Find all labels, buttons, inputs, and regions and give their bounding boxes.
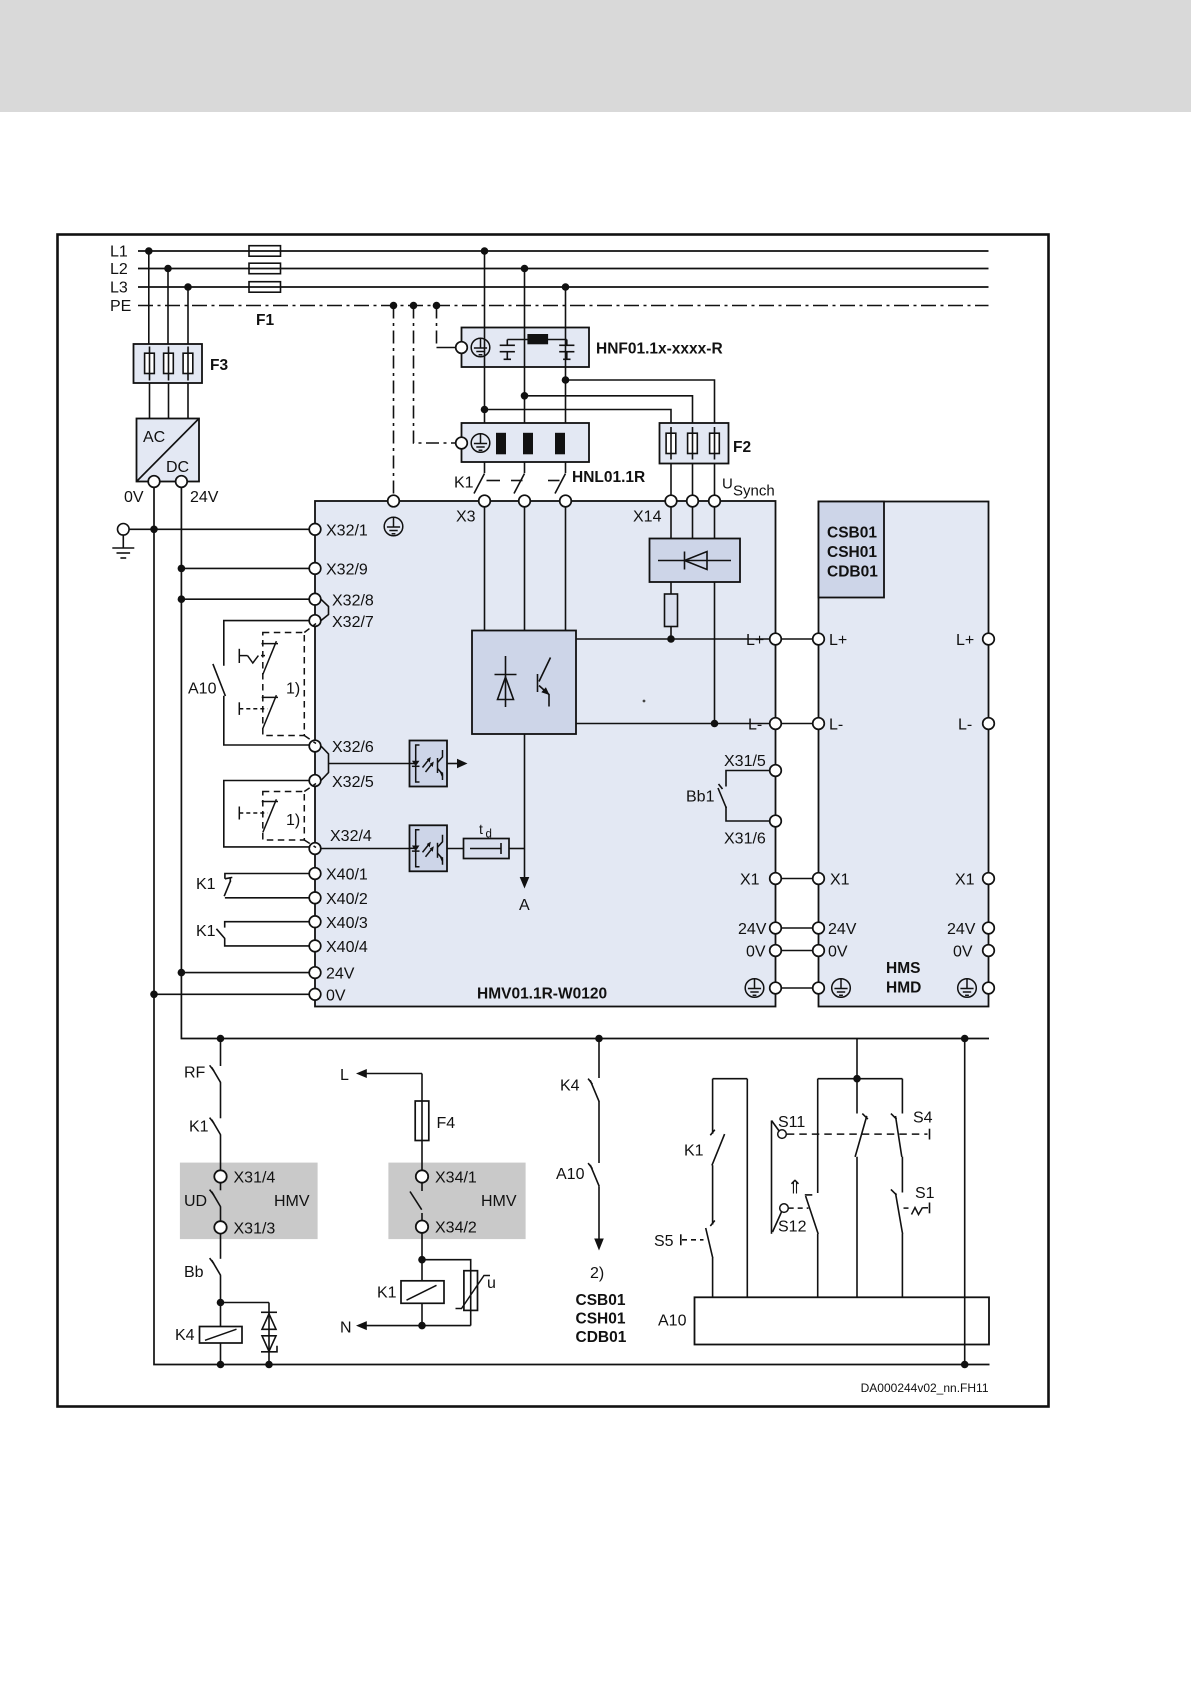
junction suppressor branch bbox=[217, 1299, 225, 1307]
ground earth symbol left bbox=[112, 524, 134, 559]
fuse F1 pole L2 bbox=[249, 263, 281, 274]
terminal X1 on HMS right bbox=[983, 873, 995, 885]
wire K1 coil to N bbox=[421, 1303, 423, 1325]
svg-text:L-: L- bbox=[958, 717, 972, 734]
svg-text:L: L bbox=[340, 1067, 349, 1084]
wire X3/1 into rectifier bbox=[484, 507, 486, 631]
contactor K1 pole3 above X3 bbox=[548, 462, 566, 494]
relay coil K4 bbox=[200, 1327, 243, 1344]
dashed link S1 with spring return bbox=[904, 1207, 913, 1209]
wire leg K1 upper bbox=[712, 1079, 714, 1134]
wire optocoupler2 to delay bbox=[447, 848, 464, 850]
svg-text:S11: S11 bbox=[778, 1114, 805, 1131]
svg-text:2): 2) bbox=[590, 1265, 604, 1282]
drive module HMS/HMD body bbox=[819, 502, 989, 1007]
svg-text:X40/2: X40/2 bbox=[326, 891, 368, 908]
switch A10 blade bbox=[213, 664, 226, 696]
resistor below synch box bbox=[665, 594, 678, 627]
svg-text:CDB01: CDB01 bbox=[576, 1329, 627, 1346]
terminal X31/3 bbox=[214, 1221, 226, 1233]
fuse F3 pole 2 bbox=[164, 347, 174, 381]
terminal PE on HMS right bbox=[983, 982, 995, 994]
terminal X31/6 bbox=[770, 815, 782, 827]
svg-text:0V: 0V bbox=[326, 988, 346, 1005]
terminal X34/1 bbox=[416, 1170, 428, 1182]
svg-text:L-: L- bbox=[829, 717, 843, 734]
fuse F3 pole 1 bbox=[145, 347, 155, 381]
svg-text:X3: X3 bbox=[456, 509, 476, 526]
guided contact 2 bbox=[239, 799, 278, 832]
contact S1 bbox=[891, 1189, 903, 1234]
terminal 0V on HMS right bbox=[983, 945, 995, 957]
wire L3 to HNF bbox=[565, 287, 567, 328]
svg-text:L2: L2 bbox=[110, 261, 128, 278]
capacitor in HNF left bbox=[500, 340, 515, 360]
svg-text:0V: 0V bbox=[953, 944, 973, 961]
wire delay to A line bbox=[509, 848, 525, 850]
contact RF bbox=[210, 1065, 221, 1082]
terminal X31/5 bbox=[770, 765, 782, 777]
junction L3/HNF bbox=[562, 283, 570, 291]
svg-text:S5: S5 bbox=[654, 1233, 674, 1250]
inductor bar 1 in HNL bbox=[496, 433, 506, 455]
wire N arrow bbox=[356, 1321, 367, 1330]
wire phase1 HNF to HNL bbox=[484, 367, 486, 423]
terminal PE on HMV top bbox=[388, 495, 400, 507]
terminal X32/6 bbox=[309, 740, 321, 752]
wire RF chain upper bbox=[220, 1039, 222, 1067]
contact in X34 field bbox=[421, 1183, 423, 1191]
terminal 0V on HMS left bbox=[813, 945, 825, 957]
svg-text:CSB01: CSB01 bbox=[576, 1292, 626, 1309]
wire L+ bus bbox=[576, 638, 770, 640]
switch S5 bbox=[681, 1221, 715, 1259]
svg-text:DC: DC bbox=[166, 459, 189, 476]
wire F2 to X14/2 bbox=[692, 464, 694, 496]
contact UD bbox=[220, 1183, 222, 1191]
svg-text:0V: 0V bbox=[746, 944, 766, 961]
wire leg S11-contact lower bbox=[856, 1157, 858, 1298]
terminal 24V on HMS right bbox=[983, 922, 995, 934]
svg-text:CDB01: CDB01 bbox=[827, 564, 878, 581]
wire optocoupler1 output arrow bbox=[447, 763, 458, 765]
chevron link X32/6-X32/5 bbox=[321, 746, 329, 781]
dashed guided-contact box 2 bbox=[263, 792, 305, 841]
fuse block F3 body bbox=[134, 344, 203, 383]
wire PE drop to HNL (dash-dot) bbox=[414, 306, 456, 444]
capacitor in HNF right bbox=[559, 340, 574, 360]
terminal X3/3 bbox=[560, 495, 572, 507]
svg-text:X1: X1 bbox=[955, 872, 975, 889]
terminal 0V left bbox=[309, 989, 321, 1001]
wire X34/2 down bbox=[421, 1233, 423, 1281]
svg-text:t: t bbox=[479, 821, 483, 837]
svg-text:K4: K4 bbox=[175, 1327, 195, 1344]
wire L3 bbox=[138, 286, 989, 288]
earth symbol in HNL bbox=[471, 434, 490, 453]
svg-text:X32/6: X32/6 bbox=[332, 739, 374, 756]
terminal L- on HMS left bbox=[813, 718, 825, 730]
contact Bb bbox=[210, 1258, 221, 1275]
wire S1 to A10 box bbox=[901, 1234, 903, 1298]
transistor symbol in rectifier bbox=[538, 658, 551, 707]
wire 24V rail to HMV 24V bbox=[181, 972, 309, 974]
junction 0V rail / X32-1 bbox=[150, 526, 158, 534]
wire 24V rail bbox=[181, 487, 989, 1038]
svg-text:N: N bbox=[340, 1320, 352, 1337]
wire L to F4 bbox=[421, 1074, 423, 1102]
svg-text:S4: S4 bbox=[913, 1110, 933, 1127]
inductor block in HNF bbox=[527, 334, 548, 344]
wire phase3 HNF to HNL bbox=[565, 328, 567, 424]
suppressor diode D2 bbox=[261, 1336, 277, 1352]
svg-text:CSB01: CSB01 bbox=[827, 525, 877, 542]
svg-text:24V: 24V bbox=[738, 921, 767, 938]
fuse F2 pole 3 bbox=[710, 427, 720, 460]
wire S4 to S1 bbox=[901, 1157, 903, 1193]
wire to varistor bbox=[422, 1260, 471, 1271]
terminal X14/3 bbox=[709, 495, 721, 507]
svg-text:L+: L+ bbox=[829, 632, 847, 649]
relay contact K1 (X40/3-X40/4) bbox=[216, 922, 309, 946]
terminal X40/1 bbox=[309, 868, 321, 880]
terminal X1 on HMV right bbox=[770, 873, 782, 885]
wire F4 to X34/1 bbox=[421, 1141, 423, 1171]
guided contact 1b bbox=[239, 695, 278, 728]
switch S11/S12 lever bbox=[772, 1121, 783, 1234]
svg-text:L+: L+ bbox=[956, 632, 974, 649]
wire leg S11-contact upper bbox=[856, 1079, 858, 1114]
interlock top link bbox=[818, 1078, 903, 1080]
wire K4 to A10 contact bbox=[598, 1102, 600, 1164]
wire synch box to resistor bbox=[670, 582, 672, 594]
svg-text:K1: K1 bbox=[189, 1119, 209, 1136]
svg-text:K1: K1 bbox=[196, 876, 216, 893]
wire F3 to AC/DC pole1 bbox=[149, 383, 151, 419]
svg-text:K1: K1 bbox=[196, 923, 216, 940]
contactor K1 pole2 above X3 bbox=[511, 462, 525, 494]
terminal L+ on HMS right bbox=[983, 633, 995, 645]
svg-text:X32/5: X32/5 bbox=[332, 774, 374, 791]
terminal L+ on HMV right bbox=[770, 633, 782, 645]
chevron link X32/8-X32/7 bbox=[321, 599, 329, 620]
terminal X34/2 bbox=[416, 1221, 428, 1233]
connector wire PE between modules bbox=[781, 987, 812, 989]
svg-text:F1: F1 bbox=[256, 312, 274, 329]
fuse F3 pole 3 bbox=[183, 347, 193, 381]
wire X14/2 into synch diode bbox=[692, 507, 694, 539]
junction 0V rail / HMV 0V bbox=[150, 991, 158, 999]
svg-text:DA000244v02_nn.FH11: DA000244v02_nn.FH11 bbox=[861, 1381, 989, 1395]
contact S4 bbox=[891, 1114, 902, 1157]
inductor bar 2 in HNL bbox=[523, 433, 533, 455]
svg-text:PE: PE bbox=[110, 298, 131, 315]
junction top link / bus drop bbox=[853, 1075, 861, 1083]
svg-text:A10: A10 bbox=[658, 1313, 687, 1330]
svg-text:S12: S12 bbox=[778, 1219, 807, 1236]
svg-text:u: u bbox=[487, 1275, 496, 1292]
fuse F2 pole 2 bbox=[688, 427, 698, 460]
relay contact K1 (X40/1-X40/2) bbox=[224, 874, 309, 898]
junction L2/F3 bbox=[164, 265, 172, 273]
earth symbol below HMV PE terminal bbox=[384, 517, 403, 536]
wire K4 coil to bus bbox=[220, 1343, 222, 1365]
svg-text:X32/7: X32/7 bbox=[332, 614, 374, 631]
supply unit HMV01.1R-W0120 body bbox=[315, 501, 776, 1007]
junction bus / K4 chain bbox=[595, 1035, 603, 1043]
wire F2 tap phase2 bbox=[525, 396, 693, 423]
contact S11-linked bbox=[855, 1114, 868, 1157]
terminal X32/8 bbox=[309, 593, 321, 605]
optocoupler 1 bbox=[410, 741, 448, 787]
wire UD to X31/3 bbox=[220, 1207, 222, 1221]
contact A10 bbox=[588, 1163, 599, 1186]
junction synch/L- bbox=[711, 720, 719, 728]
svg-text:L1: L1 bbox=[110, 244, 128, 261]
connector wire L+ between modules bbox=[781, 638, 812, 640]
wire earth to X32/1 bbox=[129, 528, 309, 530]
wire resistor to L+ bbox=[670, 627, 672, 640]
junction suppressor / bus bbox=[265, 1361, 273, 1369]
terminal X3/1 bbox=[479, 495, 491, 507]
junction L1/HNF bbox=[481, 247, 489, 255]
terminal X32/9 bbox=[309, 563, 321, 575]
svg-text:HNL01.1R: HNL01.1R bbox=[572, 469, 645, 486]
svg-text:X31/3: X31/3 bbox=[234, 1221, 276, 1238]
junction bus / right return bottom bbox=[961, 1361, 969, 1369]
junction resistor/L+ bbox=[667, 635, 675, 643]
svg-text:X31/6: X31/6 bbox=[724, 831, 766, 848]
terminal PE of HNL bbox=[456, 437, 468, 449]
junction PE c bbox=[433, 302, 441, 310]
terminal X3/2 bbox=[519, 495, 531, 507]
svg-text:d: d bbox=[486, 829, 492, 841]
terminal X40/2 bbox=[309, 892, 321, 904]
svg-text:U: U bbox=[722, 476, 733, 493]
wire X3/2 into rectifier bbox=[524, 507, 526, 631]
wire varistor to N bbox=[470, 1310, 472, 1325]
svg-text:X32/8: X32/8 bbox=[332, 593, 374, 610]
wire X32/6-5 to optocoupler bbox=[329, 763, 410, 765]
wire F3 to AC/DC pole2 bbox=[168, 383, 170, 419]
wire bus to top link bbox=[856, 1039, 858, 1079]
shaded HMV field X31 bbox=[180, 1163, 318, 1240]
earth symbol HMS left bbox=[832, 979, 851, 998]
fuse F1 line-throughs bbox=[249, 251, 281, 287]
junction phase1 / F2 tap bbox=[481, 406, 489, 414]
terminal X14/2 bbox=[687, 495, 699, 507]
arrowhead 2) bbox=[594, 1239, 604, 1251]
svg-text:24V: 24V bbox=[190, 489, 219, 506]
inductor bar 3 in HNL bbox=[555, 433, 565, 455]
wire L- bus bbox=[576, 723, 770, 725]
svg-text:X40/3: X40/3 bbox=[326, 915, 368, 932]
wire F2 to X14/1 bbox=[670, 464, 672, 496]
terminal X40/4 bbox=[309, 940, 321, 952]
wire F3 to AC/DC pole3 bbox=[187, 383, 189, 419]
fuse F1 pole L1 bbox=[249, 246, 281, 257]
terminal PE of HNF bbox=[456, 342, 468, 354]
junction 24V rail / X32-9 bbox=[178, 565, 186, 573]
terminal PE on HMS left bbox=[813, 982, 825, 994]
svg-text:A10: A10 bbox=[188, 681, 217, 698]
svg-text:X1: X1 bbox=[740, 872, 760, 889]
contact S12 bbox=[805, 1195, 818, 1234]
wire PE (dash-dot) bbox=[138, 305, 989, 307]
dashed link S12 bbox=[789, 1207, 809, 1209]
control unit A10 box bbox=[695, 1297, 990, 1344]
svg-text:X40/4: X40/4 bbox=[326, 939, 368, 956]
terminal X31/4 bbox=[214, 1170, 226, 1182]
varistor u bbox=[464, 1271, 478, 1311]
earth symbol in HNF bbox=[471, 338, 490, 357]
wire K1 to S5 bbox=[712, 1165, 714, 1224]
svg-text:L-: L- bbox=[748, 717, 762, 734]
svg-text:HMD: HMD bbox=[886, 980, 921, 997]
line filter HNF01.1x body bbox=[462, 328, 590, 368]
svg-text:X14: X14 bbox=[633, 509, 662, 526]
wire K4 chain upper bbox=[598, 1039, 600, 1079]
wire HNF phase1 pass-through bbox=[484, 328, 486, 368]
interlock leg K1/S5 top bbox=[713, 1078, 748, 1080]
wire L1 to F3 bbox=[148, 251, 150, 344]
svg-text:X1: X1 bbox=[830, 872, 850, 889]
terminal X32/7 bbox=[309, 615, 321, 627]
junction bus / RF chain bbox=[217, 1035, 225, 1043]
svg-text:K1: K1 bbox=[684, 1143, 704, 1160]
synchronisation diode box bbox=[650, 539, 741, 583]
wire L1 bbox=[138, 250, 989, 252]
wire right return to bus bbox=[964, 1039, 966, 1365]
svg-text:X31/5: X31/5 bbox=[724, 753, 766, 770]
wire S5 to A10 box bbox=[712, 1258, 714, 1297]
wire X3/3 into rectifier bbox=[565, 507, 567, 631]
contactor K1 pole1 above X3 bbox=[474, 462, 500, 494]
junction phase2 / F2 tap bbox=[521, 392, 529, 400]
terminal X32/1 bbox=[309, 524, 321, 536]
interlock leg right wire bbox=[746, 1079, 748, 1298]
wire PE drop to HNF (dash-dot) bbox=[436, 306, 438, 348]
earth symbol HMS right bbox=[958, 979, 977, 998]
svg-text:L3: L3 bbox=[110, 280, 128, 297]
wire DC link output A bbox=[524, 734, 526, 879]
svg-text:Synch: Synch bbox=[733, 483, 775, 500]
earth symbol HMV right bbox=[745, 979, 764, 998]
svg-text:0V: 0V bbox=[124, 489, 144, 506]
svg-text:24V: 24V bbox=[947, 921, 976, 938]
svg-text:X31/4: X31/4 bbox=[234, 1170, 276, 1187]
svg-text:HNF01.1x-xxxx-R: HNF01.1x-xxxx-R bbox=[596, 341, 723, 358]
terminal 24V on HMS left bbox=[813, 922, 825, 934]
optocoupler 2 bbox=[410, 825, 448, 871]
junction K4 / bus bbox=[217, 1361, 225, 1369]
svg-text:AC: AC bbox=[143, 429, 165, 446]
svg-text:K1: K1 bbox=[454, 475, 474, 492]
wire K1 to X31/4 bbox=[220, 1135, 222, 1171]
svg-text:⇑: ⇑ bbox=[787, 1178, 803, 1199]
terminal 0V on HMV right bbox=[770, 945, 782, 957]
junction varistor branch bbox=[418, 1256, 426, 1264]
wire F2 to X14/3 bbox=[714, 464, 716, 496]
contact K1 aux bbox=[210, 1118, 221, 1135]
terminal L- on HMS right bbox=[983, 718, 995, 730]
contact Bb1 bbox=[718, 771, 770, 822]
terminal 24V left bbox=[309, 967, 321, 979]
wire 0V rail bbox=[154, 487, 990, 1364]
wire L2 to F3 bbox=[167, 269, 169, 345]
svg-text:F2: F2 bbox=[733, 439, 751, 456]
junction 24V rail / X32-8 bbox=[178, 595, 186, 603]
svg-text:1): 1) bbox=[286, 681, 300, 698]
wire leg S4/S1 upper bbox=[901, 1079, 903, 1114]
wire synch box to L- bbox=[714, 582, 716, 724]
svg-text:1): 1) bbox=[286, 812, 300, 829]
contact K4 bbox=[588, 1079, 599, 1102]
wire X14/1 into synch diode bbox=[670, 507, 672, 539]
terminal L+ on HMS left bbox=[813, 633, 825, 645]
connector wire 0V between modules bbox=[781, 950, 812, 952]
terminal X14/1 bbox=[665, 495, 677, 507]
rectifier / inverter block bbox=[472, 631, 576, 735]
svg-text:A: A bbox=[519, 897, 530, 914]
dashed guided-contact box 1 bbox=[263, 633, 305, 736]
terminal X32/4 bbox=[309, 843, 321, 855]
wire 0V rail to HMV 0V bbox=[154, 993, 309, 995]
svg-text:CSH01: CSH01 bbox=[827, 544, 877, 561]
wire 24V rail to X32/8 bbox=[181, 598, 309, 600]
junction bus / right return top bbox=[961, 1035, 969, 1043]
shaded HMV field X34 bbox=[388, 1163, 525, 1240]
contact K1 interlock bbox=[710, 1130, 724, 1166]
wire F2 tap phase3 bbox=[566, 380, 715, 423]
junction phase3 / F2 tap bbox=[562, 376, 570, 384]
wire L2 bbox=[138, 268, 989, 270]
terminal 24V of AC/DC bbox=[176, 476, 188, 488]
terminal L- on HMV right bbox=[770, 718, 782, 730]
svg-text:HMV01.1R-W0120: HMV01.1R-W0120 bbox=[477, 986, 607, 1003]
choke HNL01.1R body bbox=[462, 423, 590, 462]
svg-text:K4: K4 bbox=[560, 1078, 580, 1095]
svg-text:S1: S1 bbox=[915, 1185, 935, 1202]
wire X31/3 to Bb bbox=[220, 1234, 222, 1259]
switch S12 actuator circle bbox=[780, 1204, 789, 1213]
outer border frame bbox=[58, 235, 1049, 1407]
wire to suppressor diodes bbox=[221, 1302, 270, 1304]
svg-text:UD: UD bbox=[184, 1193, 207, 1210]
svg-text:F3: F3 bbox=[210, 357, 228, 374]
wire X14/3 into synch diode bbox=[714, 507, 716, 539]
wire phase2 HNF to HNL bbox=[524, 367, 526, 423]
wire to arrow 2) bbox=[598, 1186, 600, 1240]
wire leg S12 upper bbox=[817, 1079, 819, 1193]
relay coil K1 bbox=[401, 1281, 444, 1304]
diode symbol in rectifier bbox=[495, 656, 517, 707]
power supply AC/DC converter bbox=[137, 419, 200, 482]
svg-text:RF: RF bbox=[184, 1065, 206, 1082]
delay element td box bbox=[464, 839, 510, 859]
wire HNF phase2 pass-through bbox=[524, 328, 526, 368]
wire Bb to K4 coil bbox=[220, 1275, 222, 1326]
junction PE a bbox=[390, 302, 398, 310]
control section CSB01/CSH01/CDB01 box bbox=[819, 502, 885, 598]
fuse F1 pole L3 bbox=[249, 282, 281, 293]
wire L1 to HNF bbox=[484, 251, 486, 328]
wire PE drop to HMV PE terminal (dash-dot) bbox=[393, 306, 395, 496]
junction L3/F3 bbox=[184, 283, 192, 291]
junction K1 coil / N bbox=[418, 1322, 426, 1330]
arrowhead A bbox=[520, 877, 530, 889]
connector wire L- between modules bbox=[781, 723, 812, 725]
